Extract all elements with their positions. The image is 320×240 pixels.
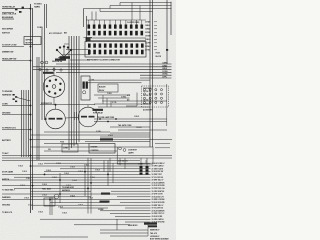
svg-text:18 GRN: 18 GRN <box>145 36 151 38</box>
svg-text:16 RED STOP LP: 16 RED STOP LP <box>152 213 166 215</box>
svg-text:HEATER: HEATER <box>91 146 99 149</box>
svg-text:COURTESY: COURTESY <box>128 150 138 152</box>
svg-text:20 YEL: 20 YEL <box>112 102 117 104</box>
svg-text:TO B/U LPS: TO B/U LPS <box>2 212 13 214</box>
svg-text:WARNING: WARNING <box>2 196 11 199</box>
svg-text:18 YEL DIR SIG: 18 YEL DIR SIG <box>152 208 164 210</box>
svg-text:FUSE: FUSE <box>60 142 64 144</box>
svg-text:20 BRN LICENSE: 20 BRN LICENSE <box>152 199 165 201</box>
svg-text:16 BLK GROUND: 16 BLK GROUND <box>152 202 166 204</box>
svg-text:CONTROL: CONTROL <box>91 150 99 152</box>
svg-text:TO SEAT BELT: TO SEAT BELT <box>2 189 16 192</box>
svg-text:CONN: CONN <box>98 209 104 211</box>
svg-text:HARN: HARN <box>34 6 40 9</box>
svg-text:BATTERY: BATTERY <box>2 139 11 142</box>
svg-text:18 GRN: 18 GRN <box>136 127 141 129</box>
svg-text:TO ALT: TO ALT <box>2 152 9 155</box>
svg-text:INSTRUMENT CLUSTER CONNECTOR: INSTRUMENT CLUSTER CONNECTOR <box>87 60 121 62</box>
svg-text:BLOCK: BLOCK <box>156 56 162 58</box>
svg-text:TO FRONT LTG: TO FRONT LTG <box>2 128 16 130</box>
svg-text:18 BLK: 18 BLK <box>107 93 112 95</box>
svg-text:18 BLK: 18 BLK <box>145 25 151 27</box>
svg-text:20 BLK DOME: 20 BLK DOME <box>152 216 163 218</box>
svg-text:IGN: IGN <box>48 149 51 151</box>
svg-text:BULKHEAD: BULKHEAD <box>2 16 14 19</box>
svg-text:BUZZER: BUZZER <box>99 87 106 89</box>
svg-text:16 RED: 16 RED <box>145 29 151 31</box>
svg-text:TO ENG: TO ENG <box>34 4 42 6</box>
svg-text:CLUSTER FEED: CLUSTER FEED <box>127 22 140 24</box>
svg-text:SWITCH: SWITCH <box>2 179 10 181</box>
svg-text:IGNITION SW: IGNITION SW <box>52 61 63 63</box>
svg-text:MOTOR: MOTOR <box>26 43 34 45</box>
svg-text:18 BLU B/U SW: 18 BLU B/U SW <box>152 171 164 173</box>
svg-text:CONN: CONN <box>37 27 43 29</box>
svg-text:HORN RELAY: HORN RELAY <box>2 6 16 9</box>
svg-text:HARNESS: HARNESS <box>2 94 12 97</box>
svg-text:18 WHT: 18 WHT <box>145 46 151 48</box>
svg-text:DIMMER SW: DIMMER SW <box>2 52 13 54</box>
svg-text:GROUND: GROUND <box>2 205 11 207</box>
svg-text:20 WHT DOOR: 20 WHT DOOR <box>152 194 164 196</box>
svg-text:HEADLAMP SW: HEADLAMP SW <box>2 58 16 61</box>
svg-text:10 ORN: 10 ORN <box>162 71 167 73</box>
svg-text:18 YEL DIR SIG: 18 YEL DIR SIG <box>152 177 164 179</box>
svg-text:20 YEL: 20 YEL <box>145 50 150 52</box>
svg-text:COIL: COIL <box>91 80 95 82</box>
svg-text:DOOR JAMB: DOOR JAMB <box>2 171 14 174</box>
svg-text:16 RED: 16 RED <box>162 65 168 67</box>
svg-text:16 BLK GROUND: 16 BLK GROUND <box>152 185 166 187</box>
svg-text:18 BLU B/U LPS: 18 BLU B/U LPS <box>152 196 164 198</box>
svg-text:16 RED STOP: 16 RED STOP <box>152 174 163 176</box>
svg-text:CONN: CONN <box>2 104 8 106</box>
svg-text:W/S WIPER: W/S WIPER <box>2 29 13 31</box>
svg-text:20 PNK: 20 PNK <box>145 32 151 34</box>
svg-text:JUNCT BLOCK: JUNCT BLOCK <box>2 14 17 16</box>
svg-text:SWITCH: SWITCH <box>2 33 10 35</box>
svg-text:16 RED: 16 RED <box>121 97 126 99</box>
svg-text:LICENSE LP: LICENSE LP <box>150 236 160 238</box>
svg-text:FUSE: FUSE <box>156 53 160 55</box>
svg-text:16 ORN: 16 ORN <box>145 43 151 45</box>
svg-text:16 PPL: 16 PPL <box>162 77 167 79</box>
svg-text:WIPER: WIPER <box>26 40 33 42</box>
svg-text:TO ENGINE: TO ENGINE <box>2 91 13 93</box>
svg-text:12 BRN: 12 BRN <box>162 63 167 65</box>
svg-text:20 BLU: 20 BLU <box>145 39 151 41</box>
svg-text:20 BLK DOME LP: 20 BLK DOME LP <box>152 163 166 165</box>
svg-text:GROUND: GROUND <box>2 113 11 115</box>
